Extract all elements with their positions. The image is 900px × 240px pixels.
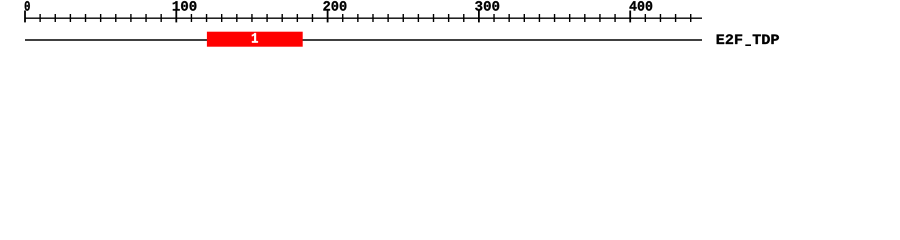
- ruler minor ticks (every 10 aa): [40, 14, 691, 22]
- scale label 400: [630, 1, 653, 11]
- domain box 1 (E2F_TDP domain, red): [207, 32, 303, 47]
- scale label 300: [475, 1, 499, 11]
- scale label 200: [323, 1, 346, 11]
- scale label 0: [25, 1, 30, 11]
- scale label 100: [173, 1, 197, 11]
- domain number 1 (white): [252, 33, 258, 43]
- major tick 200: [327, 11, 329, 23]
- ruler axis line: [25, 17, 702, 19]
- protein name E2F_TDP: [717, 34, 779, 44]
- major tick 400: [629, 11, 631, 23]
- major tick 0: [24, 11, 26, 23]
- underscore of E2F_TDP: [745, 44, 751, 46]
- major tick 300: [478, 11, 480, 23]
- major tick 100: [175, 11, 177, 23]
- protein backbone line: [25, 39, 702, 41]
